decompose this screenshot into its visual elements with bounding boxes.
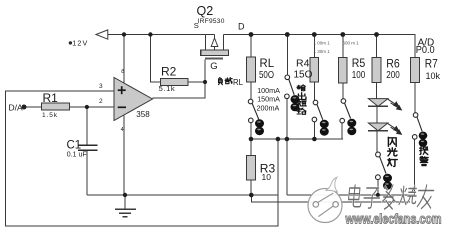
svg-text:RL: RL: [260, 56, 275, 70]
svg-text:D: D: [238, 21, 245, 31]
svg-text:G: G: [210, 61, 217, 72]
svg-text:12V: 12V: [72, 38, 87, 47]
svg-text:8: 8: [121, 69, 124, 75]
svg-text:5.1k: 5.1k: [159, 84, 175, 93]
svg-text:Q2: Q2: [197, 4, 214, 18]
svg-text:200: 200: [386, 70, 400, 81]
svg-text:D/A: D/A: [9, 103, 24, 113]
svg-text:R7: R7: [425, 56, 438, 70]
svg-text:3: 3: [99, 83, 103, 90]
svg-text:358: 358: [136, 110, 150, 119]
svg-text:P0.0: P0.0: [416, 45, 435, 56]
svg-text:4: 4: [121, 127, 124, 133]
svg-text:R5: R5: [352, 56, 366, 70]
svg-text:C1: C1: [67, 139, 82, 151]
svg-text:1 00m 1: 1 00m 1: [314, 41, 331, 46]
svg-text:600 m 1: 600 m 1: [343, 40, 360, 45]
svg-text:50O: 50O: [259, 69, 274, 81]
svg-text:100mA: 100mA: [257, 86, 280, 95]
svg-text:S: S: [194, 21, 199, 30]
svg-text:IRF9530: IRF9530: [198, 18, 225, 25]
svg-text:10k: 10k: [426, 71, 441, 81]
svg-text:R6: R6: [386, 56, 400, 70]
svg-text:10: 10: [262, 172, 272, 182]
svg-text:100: 100: [352, 70, 366, 81]
svg-text:R2: R2: [161, 64, 177, 78]
svg-text:www.elecfans.com: www.elecfans.com: [345, 212, 442, 227]
svg-text:1 30m 1: 1 30m 1: [314, 49, 331, 54]
svg-text:R4: R4: [296, 58, 310, 70]
svg-text:15O: 15O: [294, 70, 313, 81]
svg-text:R1: R1: [43, 91, 59, 105]
svg-text:RL: RL: [233, 78, 244, 87]
svg-text:2: 2: [99, 98, 103, 105]
svg-text:200mA: 200mA: [257, 103, 280, 112]
svg-text:0.1 uF: 0.1 uF: [67, 151, 87, 158]
svg-text:1.5k: 1.5k: [42, 112, 58, 119]
